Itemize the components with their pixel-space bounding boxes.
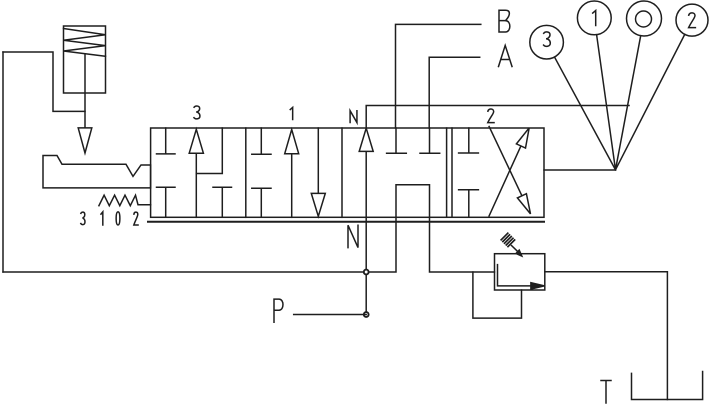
cell N: flow arrow up (P passage) bbox=[365, 151, 367, 314]
gauge line from circle 0 bbox=[616, 36, 641, 170]
position scale digit 3 bbox=[81, 212, 85, 225]
spring inside actuator box bbox=[64, 29, 106, 57]
tank symbol bbox=[632, 372, 703, 400]
junction node at N riser bbox=[364, 270, 369, 275]
divider position 1 / N bbox=[341, 128, 343, 217]
position label 3 bbox=[194, 106, 200, 119]
divider position N / 2 (double) bbox=[447, 128, 452, 217]
cell N: blocked port top B bbox=[387, 128, 407, 153]
valve base line bbox=[148, 221, 544, 223]
valve body outline bbox=[151, 128, 544, 217]
cell N: return loop bbox=[396, 185, 430, 218]
gauge line from circle 2 bbox=[616, 34, 685, 170]
actuator arrow (hollow, pointing down at lever) bbox=[78, 128, 92, 153]
port letter T bbox=[601, 381, 611, 404]
pilot actuator box (spring chamber) bbox=[64, 26, 106, 93]
cell 2: blocked port bottom-left bbox=[459, 190, 479, 218]
position scale digit 1 bbox=[101, 212, 103, 225]
port letter A bbox=[499, 45, 513, 66]
gauge circle 3 bbox=[530, 25, 564, 59]
relief valve pilot line bbox=[473, 272, 522, 318]
cell 1: flow arrow down bbox=[317, 128, 319, 194]
gauge line from circle 3 bbox=[555, 58, 616, 170]
return spring bbox=[99, 195, 151, 206]
position label N bbox=[350, 111, 357, 123]
cell 2: crossed flow arrow up-right bbox=[489, 146, 521, 216]
wire B line bbox=[396, 24, 481, 128]
cell 3: blocked ports bottom bbox=[157, 187, 232, 217]
relief valve adjustable spring bbox=[501, 233, 514, 246]
left rail wire bbox=[2, 52, 4, 272]
cell 1: blocked port top-left bbox=[252, 128, 271, 154]
lever / cam plate bbox=[43, 156, 151, 188]
cell 2: blocked port top-left bbox=[459, 128, 479, 153]
actuator rod bbox=[84, 54, 86, 129]
gauge circle 0 (double circle) bbox=[627, 1, 662, 36]
wire valve to relief valve bbox=[430, 217, 495, 272]
cell N: blocked port top A bbox=[420, 128, 440, 153]
wire P label line bbox=[294, 314, 367, 316]
relief valve body bbox=[495, 254, 545, 290]
cell 2: crossed flow arrow down-right bbox=[489, 127, 522, 196]
position scale digit 0 bbox=[116, 212, 120, 225]
cell 1: blocked port bottom bbox=[252, 188, 271, 217]
port letter N (neutral) bbox=[348, 225, 358, 247]
wire relief valve outlet to tank bbox=[545, 272, 668, 400]
junction node at P bbox=[364, 312, 369, 317]
port letter B bbox=[499, 10, 510, 32]
gauge line from circle 1 bbox=[597, 35, 616, 170]
wire P supply riser with junctions bbox=[3, 217, 396, 272]
port letter P bbox=[274, 299, 283, 322]
position scale digit 2 bbox=[134, 212, 138, 225]
cell 1: flow arrow up bbox=[291, 154, 293, 218]
position label 2 bbox=[488, 109, 494, 123]
cell 3: branch to second top port bbox=[196, 128, 222, 174]
pilot wire from left rail to actuator bbox=[3, 52, 85, 111]
gauge circle 1 bbox=[577, 1, 611, 35]
gauge circle 2 bbox=[676, 4, 708, 36]
cell 3: blocked port top-left bbox=[157, 128, 176, 154]
wire A line bbox=[429, 57, 480, 128]
wire valve outlet to gauge point bbox=[544, 169, 616, 171]
wire valve top port N to gauge line bbox=[366, 106, 629, 129]
relief valve internal flow path bbox=[498, 265, 531, 286]
divider position 3 / 1 bbox=[245, 128, 247, 217]
position label 1 bbox=[290, 107, 292, 119]
cell 3: flow arrow up bbox=[195, 153, 197, 217]
